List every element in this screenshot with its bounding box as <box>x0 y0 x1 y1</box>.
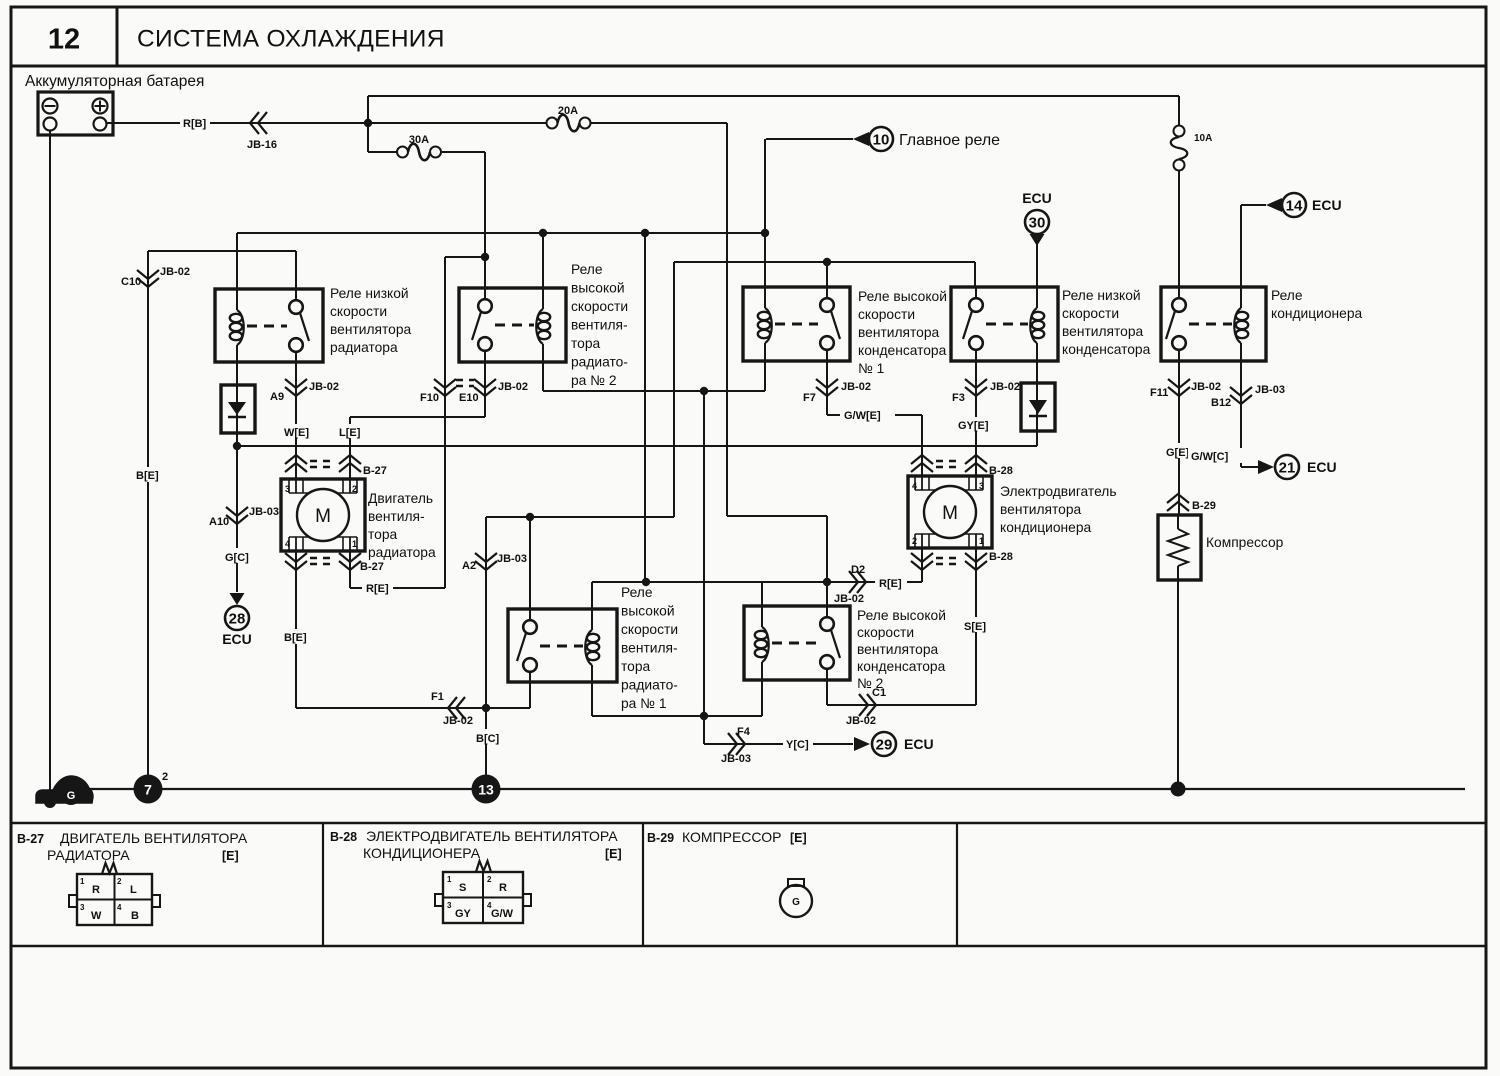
svg-text:[E]: [E] <box>222 849 239 863</box>
condenser fan motor M2 M circle <box>924 486 976 538</box>
svg-text:F11: F11 <box>1150 387 1168 399</box>
wire label G/W[E] <box>840 408 895 422</box>
connector section bottom line <box>11 945 1486 947</box>
svg-text:L[E]: L[E] <box>339 427 361 439</box>
wire label GY[E] <box>955 417 991 431</box>
wire B[C] drop <box>485 517 487 789</box>
svg-text:вентиля-: вентиля- <box>571 318 628 333</box>
svg-text:JB-02: JB-02 <box>309 381 339 393</box>
svg-text:10: 10 <box>873 132 890 149</box>
wire G/W[E] drop to motor pin4 <box>921 415 923 476</box>
wire coil-ground drop x704 <box>703 391 705 716</box>
ref circle 14 <box>1282 193 1306 217</box>
svg-text:G/W[E]: G/W[E] <box>844 410 881 422</box>
wire G/W[E] <box>827 414 922 416</box>
svg-text:КОМПРЕССОР: КОМПРЕССОР <box>682 829 781 845</box>
svg-text:1: 1 <box>979 536 984 546</box>
ref circle 28 <box>225 606 249 630</box>
connector C1 JB-02 <box>859 694 868 716</box>
wire R2 coil feed <box>542 233 544 288</box>
svg-text:Y[C]: Y[C] <box>786 739 809 751</box>
ground node 13 <box>472 775 501 804</box>
svg-text:C10: C10 <box>121 276 141 288</box>
diode D2 <box>1036 383 1038 446</box>
svg-text:2: 2 <box>487 875 492 884</box>
svg-text:Двигатель: Двигатель <box>368 491 433 506</box>
svg-text:21: 21 <box>1279 460 1296 477</box>
diode D1 <box>236 385 238 446</box>
connector A2 JB-03 <box>475 553 497 562</box>
connector B-27 pinout box <box>77 874 152 925</box>
svg-text:4: 4 <box>285 539 290 549</box>
relay K7 (Реле высокой скорости вентилятора конденсатора №2) box <box>744 606 850 680</box>
svg-text:ДВИГАТЕЛЬ ВЕНТИЛЯТОРА: ДВИГАТЕЛЬ ВЕНТИЛЯТОРА <box>60 830 248 846</box>
connector B-28 pinout box <box>443 872 523 923</box>
svg-text:ECU: ECU <box>1307 459 1337 475</box>
svg-text:Компрессор: Компрессор <box>1206 535 1284 550</box>
wire label R[E] <box>362 581 393 595</box>
svg-text:20A: 20A <box>558 105 578 117</box>
wire R6 switch feed <box>529 517 531 609</box>
fuse 10A drop <box>1178 96 1180 126</box>
svg-text:[E]: [E] <box>605 847 622 861</box>
svg-text:РАДИАТОРА: РАДИАТОРА <box>47 847 130 863</box>
svg-text:ра № 2: ра № 2 <box>571 373 617 388</box>
diode D2 box <box>1021 383 1055 431</box>
svg-text:7: 7 <box>144 782 152 798</box>
svg-text:3: 3 <box>285 484 290 494</box>
node F1-B[C] junction <box>482 704 490 712</box>
svg-text:B-27: B-27 <box>17 832 44 846</box>
svg-text:тора: тора <box>368 527 398 542</box>
relay K3 (Реле высокой скорости вентилятора конденсатора №1) contact <box>826 287 828 298</box>
svg-text:Главное реле: Главное реле <box>899 132 1000 149</box>
svg-text:JB-02: JB-02 <box>990 381 1020 393</box>
connector E10 JB-02 <box>474 379 496 388</box>
wire R7 switch output C1 <box>826 680 828 705</box>
svg-text:ЭЛЕКТРОДВИГАТЕЛЬ ВЕНТИЛЯТОРА: ЭЛЕКТРОДВИГАТЕЛЬ ВЕНТИЛЯТОРА <box>366 828 618 844</box>
svg-text:G/W: G/W <box>491 908 514 920</box>
node diode D1 output <box>233 442 241 450</box>
wire label L[E] <box>337 424 365 438</box>
svg-text:E10: E10 <box>459 392 479 404</box>
svg-text:JB-02: JB-02 <box>841 381 871 393</box>
svg-text:вентилятора: вентилятора <box>1000 502 1082 517</box>
relay K3 (Реле высокой скорости вентилятора конденсатора №1) box <box>743 287 850 361</box>
svg-text:JB-16: JB-16 <box>247 139 277 151</box>
svg-text:B-28: B-28 <box>989 551 1013 563</box>
wire label W[E] <box>281 424 312 438</box>
svg-text:1: 1 <box>447 875 452 884</box>
svg-text:ECU: ECU <box>1022 190 1052 206</box>
svg-text:ра № 1: ра № 1 <box>621 696 667 711</box>
wire motor pin2 to R[E] <box>921 548 923 582</box>
arrow to ECU 21 <box>1258 460 1274 474</box>
wire R2 coil ground link <box>542 362 544 391</box>
node x645 tap <box>642 578 650 586</box>
svg-text:радиатора: радиатора <box>368 545 436 560</box>
svg-text:конденсатора: конденсатора <box>857 659 946 674</box>
node R7 switch feed / R[E] tap <box>823 578 831 586</box>
relay K5 (Реле кондиционера) coil <box>1240 287 1242 308</box>
relay K7 (Реле высокой скорости вентилятора конденсатора №2) contact <box>826 606 828 617</box>
wire R2 switch feed <box>484 257 486 288</box>
radiator fan motor M1 box <box>281 479 365 551</box>
wire R1 coil to diode <box>236 362 238 385</box>
node R3 switch tap <box>823 258 831 266</box>
svg-text:B-28: B-28 <box>330 830 357 844</box>
wire to ECU 21 <box>1241 466 1258 468</box>
connector B-27 lower chevrons <box>285 553 307 562</box>
wire R3 coil feed <box>764 233 766 287</box>
relay K4 (Реле низкой скорости вентилятора конденсатора) box <box>951 287 1058 361</box>
svg-text:B[E]: B[E] <box>284 632 307 644</box>
svg-text:L: L <box>130 884 137 896</box>
arrow to main relay <box>853 132 869 146</box>
connector F3 JB-02 <box>965 379 987 388</box>
svg-text:конденсатора: конденсатора <box>858 343 947 358</box>
svg-text:№ 1: № 1 <box>858 361 884 376</box>
wire switched feed rail y262 <box>674 261 975 263</box>
svg-text:высокой: высокой <box>621 604 675 619</box>
svg-text:R: R <box>499 882 507 894</box>
wire 20A drop <box>726 123 728 516</box>
svg-text:D2: D2 <box>851 564 865 576</box>
relay K4 (Реле низкой скорости вентилятора конденсатора) coil <box>1036 287 1038 308</box>
wire R1 switch output W[E] <box>295 362 297 479</box>
svg-text:R: R <box>92 884 100 896</box>
svg-text:вентиля-: вентиля- <box>621 641 678 656</box>
wire R3 switch feed <box>826 262 828 287</box>
wire R4 switch feed <box>974 262 976 287</box>
wire 20A jog to condenser circuit <box>727 515 827 517</box>
svg-text:30: 30 <box>1029 215 1046 232</box>
relay K2 (Реле высокой скорости вентилятора радиатора №2) link (dashed) <box>495 324 534 327</box>
connector B-28 tabs <box>435 894 443 906</box>
wire L[E] drop <box>349 417 351 479</box>
wire junction riser <box>367 96 369 123</box>
svg-text:КОНДИЦИОНЕРА: КОНДИЦИОНЕРА <box>363 845 481 861</box>
svg-text:G/W[C]: G/W[C] <box>1191 451 1229 463</box>
wire R4 switch output F3 / GY[E] <box>975 361 977 476</box>
svg-text:кондиционера: кондиционера <box>1000 520 1091 535</box>
wire ECU30 to relay coil <box>1036 244 1038 287</box>
svg-text:JB-02: JB-02 <box>1191 381 1221 393</box>
svg-text:радиато-: радиато- <box>621 678 678 693</box>
svg-text:тора: тора <box>621 659 651 674</box>
wire R7 coil top <box>761 582 763 606</box>
svg-text:13: 13 <box>478 782 494 798</box>
wire to ECU 14 <box>1241 204 1266 206</box>
svg-text:14: 14 <box>1286 198 1303 215</box>
svg-text:G[E]: G[E] <box>1166 447 1190 459</box>
svg-text:Реле: Реле <box>571 262 603 277</box>
connector F10 JB-02 <box>434 379 456 388</box>
relay K4 (Реле низкой скорости вентилятора конденсатора) contact <box>975 287 977 298</box>
connector A9 JB-02 <box>285 379 307 388</box>
connector B-28 key <box>476 861 491 872</box>
connector section top line <box>11 822 1486 825</box>
wire R2 switch output E10 <box>484 362 486 417</box>
node coil ground link <box>700 387 708 395</box>
connector JB-16 <box>258 112 267 134</box>
condenser fan motor M2 pin stubs <box>921 476 923 490</box>
fuse 10A <box>1174 126 1185 137</box>
svg-text:S[E]: S[E] <box>964 621 986 633</box>
connector F7 JB-02 <box>816 379 838 388</box>
connector B-29 round connector <box>780 885 812 917</box>
relay K2 (Реле высокой скорости вентилятора радиатора №2) coil <box>542 288 544 309</box>
wire 10A output <box>1178 171 1180 288</box>
svg-text:JB-03: JB-03 <box>721 753 751 765</box>
svg-text:вентилятора: вентилятора <box>858 325 940 340</box>
relay K7 (Реле высокой скорости вентилятора конденсатора №2) link (dashed) <box>772 642 818 645</box>
wire F10 branch <box>445 256 485 258</box>
connector B-28 lower chevrons <box>911 553 933 562</box>
connector B12 JB-03 <box>1230 387 1252 396</box>
svg-text:[E]: [E] <box>790 831 807 845</box>
ref circle 10 <box>869 127 893 151</box>
node rail feed lower <box>641 229 649 237</box>
svg-text:G: G <box>792 897 800 908</box>
wire fan feed line y582 <box>592 581 922 583</box>
svg-text:R[E]: R[E] <box>366 583 389 595</box>
svg-text:скорости: скорости <box>621 622 678 637</box>
svg-text:тора: тора <box>571 336 601 351</box>
svg-text:ECU: ECU <box>1312 197 1342 213</box>
wire main relay rail <box>237 232 765 234</box>
wire F4 branch <box>703 716 705 744</box>
wire label G[C] <box>221 548 253 563</box>
wire coil ground link y716 <box>592 715 762 717</box>
connector F11 JB-02 <box>1168 379 1190 388</box>
wire R5 coil output B12 / G/W[C] <box>1240 361 1242 467</box>
connector B-27 upper chevrons <box>285 463 307 472</box>
connector B-29 <box>1167 502 1189 511</box>
radiator fan motor M1 terminal slots <box>288 479 290 493</box>
svg-text:вентилятора: вентилятора <box>330 322 412 337</box>
wire R3 switch output F7 <box>826 361 828 415</box>
battery BAT box <box>38 92 113 135</box>
node rail-R2 coil <box>539 229 547 237</box>
battery minus terminal <box>43 99 58 114</box>
svg-text:F3: F3 <box>952 392 965 404</box>
relay K4 (Реле низкой скорости вентилятора конденсатора) link (dashed) <box>986 323 1028 326</box>
svg-text:M: M <box>315 506 331 527</box>
wire label G/W[C] <box>1188 448 1244 463</box>
svg-text:4: 4 <box>117 903 122 912</box>
node rail-main relay <box>761 229 769 237</box>
relay K6 (Реле высокой скорости вентилятора радиатора №1) contact <box>529 609 531 620</box>
wire battery positive R[B] <box>107 122 547 124</box>
svg-text:ECU: ECU <box>222 631 252 647</box>
ground node 7 <box>134 775 163 804</box>
relay K1 (Реле низкой скорости вентилятора радиатора) box <box>215 289 323 362</box>
relay K2 (Реле высокой скорости вентилятора радиатора №2) contact <box>484 288 486 299</box>
relay K5 (Реле кондиционера) box <box>1161 287 1266 361</box>
relay K5 (Реле кондиционера) link (dashed) <box>1189 323 1232 326</box>
arrow to ECU 14 <box>1266 198 1282 212</box>
svg-text:W[E]: W[E] <box>284 427 309 439</box>
svg-text:R[E]: R[E] <box>879 578 902 590</box>
svg-text:B: B <box>131 910 139 922</box>
battery posts <box>44 118 57 131</box>
svg-text:B12: B12 <box>1211 397 1231 409</box>
svg-text:JB-02: JB-02 <box>834 593 864 605</box>
svg-text:JB-02: JB-02 <box>443 715 473 727</box>
svg-text:B-27: B-27 <box>360 561 384 573</box>
svg-text:29: 29 <box>876 737 893 754</box>
svg-text:вентилятора: вентилятора <box>1062 324 1144 339</box>
wire label B[E] (left) <box>132 467 164 482</box>
svg-text:3: 3 <box>80 903 85 912</box>
wire ignition feed <box>148 250 296 252</box>
svg-text:скорости: скорости <box>330 304 387 319</box>
wire R7 coil ground <box>761 680 763 716</box>
radiator fan motor M1 pin stubs <box>295 479 297 493</box>
wire R6 coil top <box>591 582 593 609</box>
svg-text:G[C]: G[C] <box>225 552 249 564</box>
wire motor pin1 S[E] <box>975 548 977 705</box>
wire compressor to ground <box>1177 580 1179 789</box>
arrow from ECU 30 <box>1030 234 1045 246</box>
wire label R[E] (right) <box>875 575 907 589</box>
wire label G[E] <box>1163 443 1194 458</box>
relay K1 (Реле низкой скорости вентилятора радиатора) coil <box>236 289 238 310</box>
compressor box <box>1158 515 1201 580</box>
node R6 switch tap <box>526 513 534 521</box>
svg-text:F7: F7 <box>803 392 816 404</box>
wire label Y[C] <box>783 737 813 751</box>
ref circle 30 <box>1025 210 1049 234</box>
wire top rail <box>368 95 1179 97</box>
svg-text:B[C]: B[C] <box>476 733 500 745</box>
title cell divider <box>116 7 119 66</box>
svg-text:GY[E]: GY[E] <box>958 420 989 432</box>
svg-text:F10: F10 <box>420 392 439 404</box>
svg-text:скорости: скорости <box>857 625 914 640</box>
wire label B[E] (motor) <box>281 629 312 644</box>
wire diode bus y446 <box>237 445 1037 447</box>
svg-text:JB-03: JB-03 <box>1255 384 1285 396</box>
diode D1 box <box>221 385 255 433</box>
svg-text:JB-03: JB-03 <box>249 506 279 518</box>
connector A10 JB-03 <box>226 507 248 516</box>
ground bus <box>78 788 1465 790</box>
relay K1 (Реле низкой скорости вентилятора радиатора) contact <box>295 289 297 300</box>
svg-text:1: 1 <box>80 877 85 886</box>
wire 20A continuation <box>591 122 728 124</box>
svg-text:GY: GY <box>455 908 472 920</box>
wire R6 switch output <box>529 682 531 708</box>
svg-text:2: 2 <box>912 536 917 546</box>
svg-text:B-29: B-29 <box>1192 500 1216 512</box>
connector section divider 2 <box>642 823 644 946</box>
fuse 30A <box>397 147 408 158</box>
svg-text:F1: F1 <box>431 691 444 703</box>
ref circle 29 <box>872 732 896 756</box>
wire 30A branch <box>367 123 369 152</box>
svg-text:JB-03: JB-03 <box>497 553 527 565</box>
node coil ground-F4 junction <box>700 712 708 720</box>
wire B[C] branch line y517 <box>486 516 674 518</box>
svg-text:R[B]: R[B] <box>183 118 207 130</box>
svg-text:28: 28 <box>229 611 246 628</box>
svg-text:JB-02: JB-02 <box>160 266 190 278</box>
svg-text:3: 3 <box>979 481 984 491</box>
svg-text:конденсатора: конденсатора <box>1062 342 1151 357</box>
svg-text:A2: A2 <box>462 560 476 572</box>
relay K3 (Реле высокой скорости вентилятора конденсатора №1) link (dashed) <box>775 323 818 326</box>
svg-text:JB-02: JB-02 <box>498 381 528 393</box>
svg-text:радиатора: радиатора <box>330 340 398 355</box>
wire F1 line y708 <box>296 707 530 709</box>
svg-text:M: M <box>942 503 958 524</box>
wire switched feed riser x674 <box>673 262 675 517</box>
wire C10 drop <box>147 251 149 789</box>
svg-text:вентилятора: вентилятора <box>857 642 939 657</box>
wire motor pin4 B[E] <box>295 551 297 708</box>
wire A10 drop <box>236 446 238 592</box>
svg-text:кондиционера: кондиционера <box>1271 306 1362 321</box>
svg-text:12: 12 <box>48 24 80 56</box>
svg-text:Реле: Реле <box>621 585 653 600</box>
relay K6 (Реле высокой скорости вентилятора радиатора №1) link (dashed) <box>540 645 583 648</box>
wire R[E] link to condenser motor pin2 <box>827 581 922 583</box>
fuse 20A <box>547 118 558 129</box>
radiator fan motor M1 M circle <box>297 489 349 541</box>
battery plus terminal <box>93 99 108 114</box>
relay K7 (Реле высокой скорости вентилятора конденсатора №2) coil <box>761 606 763 627</box>
wire to main relay <box>766 138 853 140</box>
condenser fan motor M2 terminal slots <box>914 476 916 490</box>
condenser fan motor M2 box <box>908 476 992 548</box>
relay K2 (Реле высокой скорости вентилятора радиатора №2) box <box>459 288 566 362</box>
arrow to ECU 29 <box>854 737 870 751</box>
connector section divider 3 <box>956 823 958 946</box>
wire battery negative <box>49 131 51 794</box>
relay K1 (Реле низкой скорости вентилятора радиатора) link (dashed) <box>247 325 287 328</box>
svg-text:Реле низкой: Реле низкой <box>330 286 409 301</box>
svg-text:G: G <box>67 790 76 802</box>
svg-text:Реле: Реле <box>1271 288 1303 303</box>
svg-text:A9: A9 <box>270 391 284 403</box>
connector F4 JB-03 <box>728 733 737 755</box>
svg-text:B-29: B-29 <box>647 831 674 845</box>
connector link F10-E10 <box>456 379 474 381</box>
connector section divider 1 <box>322 823 324 946</box>
wire label B[C] <box>472 729 502 744</box>
wire 30A output <box>484 152 486 257</box>
node 30A-R2 junction <box>481 253 489 261</box>
svg-text:1: 1 <box>352 539 357 549</box>
svg-text:F4: F4 <box>737 726 751 738</box>
svg-text:10A: 10A <box>1194 133 1212 144</box>
svg-text:вентиля-: вентиля- <box>368 509 425 524</box>
wire F10 line <box>444 257 446 588</box>
svg-text:Электродвигатель: Электродвигатель <box>1000 484 1117 499</box>
svg-text:B-27: B-27 <box>363 465 387 477</box>
svg-text:скорости: скорости <box>858 307 915 322</box>
svg-text:30A: 30A <box>409 134 429 146</box>
wire label R[B] <box>180 116 210 130</box>
wire R4 coil to diode D2 <box>1036 361 1038 383</box>
arrow to ECU 28 <box>230 593 245 605</box>
relay K6 (Реле высокой скорости вентилятора радиатора №1) coil <box>591 609 593 630</box>
title bar separator <box>11 65 1486 68</box>
wire motor pin1 R[E] <box>349 551 351 588</box>
svg-text:B[E]: B[E] <box>136 470 159 482</box>
